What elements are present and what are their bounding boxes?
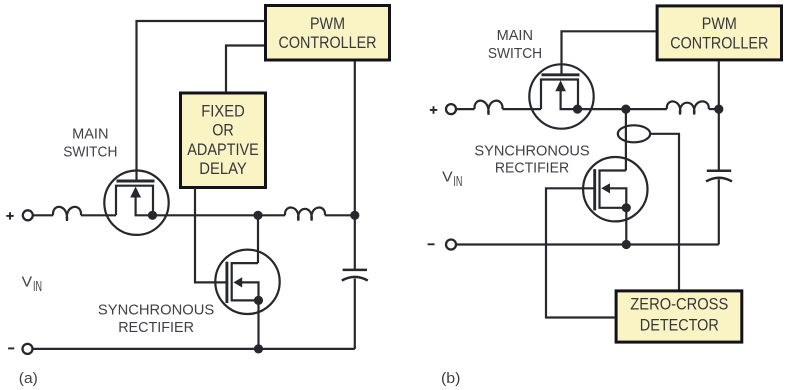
- wire: inductor to main switch (a): [81, 214, 116, 216]
- svg-text:CONTROLLER: CONTROLLER: [670, 33, 768, 52]
- svg-text:RECTIFIER: RECTIFIER: [495, 159, 569, 176]
- svg-text:OR: OR: [212, 121, 234, 140]
- transistor Q2: synchronous rectifier (a): [215, 250, 279, 314]
- inductor L3: input choke (b): [474, 101, 502, 115]
- wire: sync rectifier source to bottom rail (b): [625, 208, 627, 245]
- transistor Q3: main switch (b): [529, 64, 593, 128]
- wire: output node up to PWM feedback (a): [354, 62, 356, 216]
- terminal: + input (a): [23, 210, 33, 220]
- wire: main-switch gate to PWM (a): [137, 21, 266, 181]
- terminal: - input (a): [23, 344, 33, 354]
- capacitor C2: output cap (b): [706, 171, 732, 245]
- wire: + terminal to input inductor (a): [33, 214, 53, 216]
- wire: bottom rail (a): [33, 348, 355, 350]
- box U1: PWM controller (a): [266, 6, 390, 61]
- svg-text:SYNCHRONOUS: SYNCHRONOUS: [98, 301, 214, 318]
- svg-text:(a): (a): [19, 370, 38, 387]
- svg-text:SWITCH: SWITCH: [63, 143, 117, 160]
- svg-text:FIXED: FIXED: [201, 102, 245, 121]
- wire: PWM to delay box input: [226, 46, 264, 93]
- svg-text:DELAY: DELAY: [199, 159, 247, 178]
- box U2: fixed or adaptive delay: [181, 93, 266, 188]
- svg-text:CONTROLLER: CONTROLLER: [279, 33, 377, 52]
- terminal: - input (b): [446, 240, 456, 250]
- wire: switch node rail (b): [578, 108, 667, 110]
- capacitor C1: output cap (a): [342, 215, 368, 349]
- transistor Q1: main switch (a): [104, 171, 168, 235]
- inductor L4: output inductor (b): [667, 101, 709, 114]
- svg-text:(b): (b): [441, 370, 461, 387]
- svg-text:ZERO-CROSS: ZERO-CROSS: [630, 295, 728, 314]
- node: source to bottom rail junction (a): [254, 344, 263, 353]
- node: output node junction (a): [350, 211, 359, 220]
- svg-text:SWITCH: SWITCH: [488, 45, 542, 62]
- svg-text:MAIN: MAIN: [72, 126, 108, 143]
- svg-text:IN: IN: [33, 278, 42, 295]
- wire: sync gate to zero-cross detector output (b): [546, 188, 615, 317]
- box U4: zero-cross detector: [616, 291, 742, 342]
- node: output node junction (b): [714, 105, 723, 114]
- wire: inductor to main switch (b): [503, 108, 542, 110]
- svg-text:IN: IN: [453, 173, 462, 190]
- wire: delay box output to sync-rectifier gate: [195, 188, 228, 282]
- wire: PWM controller down to output node (b): [718, 61, 720, 170]
- svg-text:PWM: PWM: [702, 14, 737, 33]
- inductor L2: output inductor (a): [285, 208, 325, 221]
- svg-text:MAIN: MAIN: [497, 27, 533, 44]
- svg-text:V: V: [22, 274, 33, 291]
- inductor L1: input choke (a): [53, 207, 81, 221]
- wire: inductor to output node (b): [709, 108, 719, 110]
- node: switch node junction (a): [253, 211, 262, 220]
- box U3: PWM controller (b): [657, 6, 781, 60]
- wire: + terminal to input inductor (b): [457, 108, 475, 110]
- transistor Q4: synchronous rectifier (b): [583, 157, 647, 221]
- svg-text:RECTIFIER: RECTIFIER: [118, 319, 194, 336]
- svg-text:PWM: PWM: [310, 14, 345, 33]
- wire: inductor to output node (a): [325, 214, 355, 216]
- svg-text:ADAPTIVE: ADAPTIVE: [187, 140, 259, 159]
- node: switch node junction (b): [621, 105, 630, 114]
- wire: switch node rail (a): [153, 214, 286, 216]
- wire: sync rectifier source to bottom rail (a): [257, 300, 259, 349]
- wire: main-switch gate to PWM (b): [562, 31, 656, 75]
- svg-text:DETECTOR: DETECTOR: [640, 316, 719, 335]
- terminal: + input (b): [446, 104, 456, 114]
- svg-text:SYNCHRONOUS: SYNCHRONOUS: [474, 142, 589, 159]
- wire: switch node down through sense loop to drain (b): [625, 109, 627, 170]
- wire: sense loop to zero-cross detector input: [650, 134, 679, 290]
- svg-text:V: V: [442, 169, 453, 186]
- node: source to bottom rail junction (b): [622, 240, 631, 249]
- wire: switch node down to sync rectifier drain (a): [257, 215, 259, 263]
- sense loop: zero-cross pickup ellipse: [618, 125, 650, 142]
- wire: bottom rail (b): [457, 243, 719, 245]
